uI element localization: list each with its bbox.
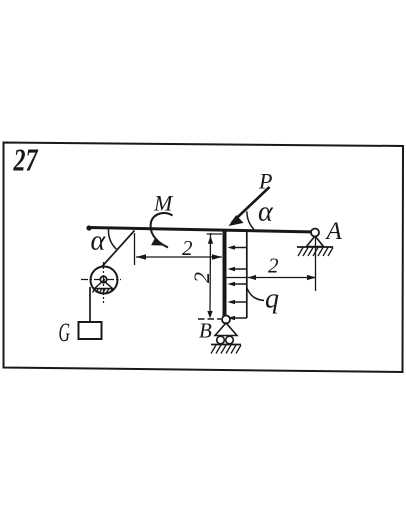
svg-text:2: 2: [189, 272, 214, 283]
svg-text:A: A: [325, 218, 343, 245]
vertical member: [223, 229, 227, 319]
pulley circle: [91, 267, 118, 294]
angle arc alpha right: [247, 211, 254, 229]
force P arrow line: [232, 187, 270, 223]
dimension line 2 left: [136, 256, 222, 258]
node left end dot: [86, 225, 91, 230]
extension line top: [207, 233, 223, 235]
support B ground line: [211, 344, 241, 346]
dim arrow right: [212, 254, 222, 259]
support A ground line: [297, 246, 333, 248]
weight box G: [79, 322, 102, 339]
svg-text:P: P: [258, 169, 272, 194]
pulley centerline vertical: [103, 262, 105, 303]
dimension extension line left: [134, 233, 136, 265]
vertical dimension line: [209, 233, 212, 315]
wire rope vertical to weight: [89, 287, 91, 322]
pulley support triangle: [95, 281, 113, 289]
distributed load right edge: [246, 232, 248, 318]
svg-text:27: 27: [13, 142, 39, 178]
extension line below A: [315, 236, 317, 291]
vertical dim arrow up: [208, 236, 213, 244]
support B hatching: [211, 345, 241, 354]
beam AB horizontal: [88, 228, 316, 233]
dim arrow left: [136, 254, 146, 259]
support A hatching: [298, 248, 333, 257]
extension line bottom dashed: [198, 318, 221, 320]
moment arrowhead: [151, 237, 162, 245]
dim arrow right end: [307, 275, 317, 280]
support B pin circle: [222, 316, 230, 324]
svg-text:2: 2: [182, 236, 193, 260]
dimension line 2 right: [227, 277, 317, 279]
svg-text:M: M: [153, 191, 174, 216]
pulley hub: [100, 276, 106, 282]
svg-text:G: G: [59, 318, 71, 347]
pulley centerline horizontal: [81, 279, 121, 281]
svg-text:α: α: [91, 226, 107, 257]
svg-text:q: q: [265, 284, 279, 315]
support B triangle: [215, 323, 237, 336]
vertical dim arrow down: [207, 311, 212, 319]
angle arc alpha left: [108, 230, 116, 250]
svg-text:B: B: [199, 319, 212, 343]
pulley support hatching: [93, 289, 113, 293]
support B roller 1: [217, 336, 225, 344]
moment arc M: [151, 213, 173, 247]
force P arrowhead: [229, 215, 244, 226]
support A pin circle: [311, 229, 319, 237]
border frame: [4, 143, 404, 373]
load arrow 1: [230, 248, 247, 319]
wire rope diagonal to pulley: [102, 231, 135, 267]
support B roller 2: [226, 336, 234, 344]
svg-text:2: 2: [268, 254, 279, 278]
svg-text:α: α: [258, 197, 274, 228]
support A triangle: [307, 236, 324, 247]
leader line q: [247, 287, 265, 301]
